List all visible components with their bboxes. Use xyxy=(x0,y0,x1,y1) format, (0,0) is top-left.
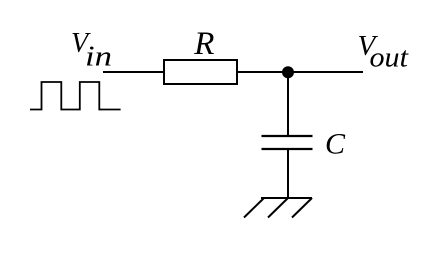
svg-text:C: C xyxy=(325,128,346,161)
svg-text:out: out xyxy=(370,42,409,74)
svg-text:in: in xyxy=(85,42,112,73)
svg-text:R: R xyxy=(193,26,214,62)
